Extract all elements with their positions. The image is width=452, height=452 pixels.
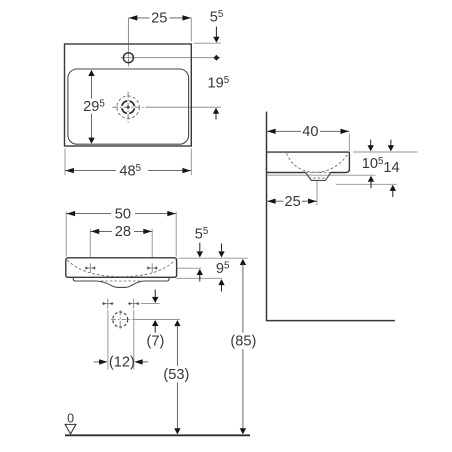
svg-text:(7): (7) — [146, 334, 164, 350]
svg-text:(12): (12) — [109, 355, 135, 371]
svg-text:(85): (85) — [230, 334, 256, 350]
svg-text:40: 40 — [302, 124, 318, 140]
svg-text:(53): (53) — [163, 367, 189, 383]
svg-text:50: 50 — [115, 206, 131, 222]
svg-text:14: 14 — [383, 160, 399, 176]
svg-text:28: 28 — [115, 224, 131, 240]
svg-text:0: 0 — [67, 411, 74, 425]
svg-text:25: 25 — [284, 194, 300, 210]
svg-text:25: 25 — [151, 11, 167, 27]
